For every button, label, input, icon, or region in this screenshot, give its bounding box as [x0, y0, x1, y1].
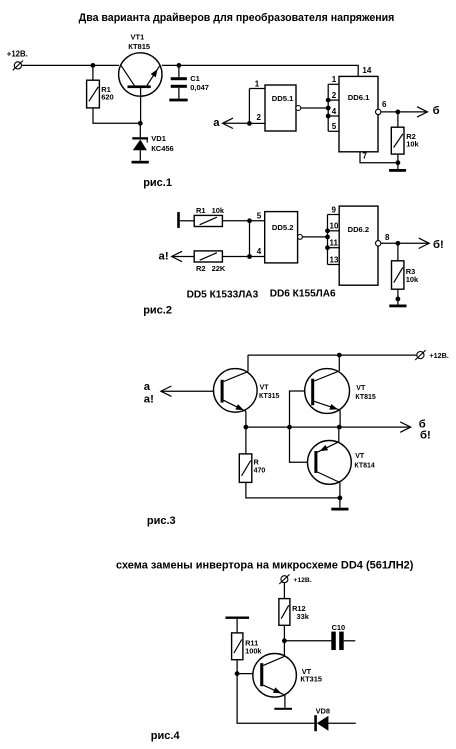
pin label 13	[330, 255, 339, 264]
label VT KT315 (fig.3 left)	[259, 384, 280, 400]
node R2 top	[396, 110, 401, 115]
node collector/C10	[282, 638, 287, 643]
resistor R2 (fig.2)	[194, 251, 222, 262]
node R2 bottom	[396, 160, 401, 165]
svg-text:33k: 33k	[297, 612, 310, 621]
svg-text:DD5.1: DD5.1	[272, 94, 294, 103]
svg-text:б: б	[433, 105, 440, 117]
svg-text:а!: а!	[144, 394, 154, 406]
svg-text:470: 470	[254, 467, 266, 474]
svg-text:а!: а!	[159, 251, 169, 263]
terminal bar (fig.2 R1)	[177, 212, 180, 228]
pin label 2 (DD5.1)	[257, 113, 262, 122]
label a (fig.1)	[213, 117, 220, 129]
transistor VT KT315 (fig.3 left)	[214, 355, 258, 427]
svg-text:1: 1	[332, 75, 337, 84]
svg-text:5: 5	[332, 122, 337, 131]
input arrow a! (fig.2)	[172, 251, 195, 261]
ground under R2	[389, 169, 406, 172]
svg-text:VD8: VD8	[316, 706, 330, 715]
svg-text:а: а	[213, 117, 220, 129]
svg-text:10k: 10k	[406, 140, 419, 149]
svg-text:2: 2	[257, 113, 262, 122]
svg-text:КТ815: КТ815	[128, 42, 150, 51]
DD6.1 input bracket	[328, 84, 339, 131]
svg-text:7: 7	[363, 151, 368, 160]
label R3 10k	[406, 267, 419, 284]
diode VD8	[314, 715, 356, 731]
resistor R12	[279, 599, 290, 626]
transistor VT KT315 (fig.4)	[253, 654, 297, 708]
power terminal +12V (fig.1)	[7, 50, 28, 71]
node base/VD1	[138, 121, 143, 126]
pin label 9	[332, 205, 337, 214]
transistor VT KT815 (fig.3)	[305, 355, 350, 427]
caption fig.4	[151, 730, 181, 742]
label C10	[332, 623, 346, 632]
pin label 7	[363, 151, 368, 160]
svg-text:10k: 10k	[406, 275, 419, 284]
pin label 5 (DD5.2)	[257, 211, 262, 220]
wire R2 to pin4	[222, 256, 264, 258]
caption DD5 K1533LA3	[187, 289, 259, 300]
svg-text:КТ315: КТ315	[300, 674, 322, 683]
node base (fig.4)	[235, 671, 240, 676]
svg-text:рис.3: рис.3	[147, 515, 176, 527]
svg-text:КТ815: КТ815	[355, 394, 376, 401]
wire R1 to base node	[93, 108, 139, 123]
ground under R3 (fig.2)	[389, 305, 406, 308]
wire R3 to ground	[397, 289, 399, 304]
output arrow b/b! (fig.3)	[400, 422, 411, 432]
zener diode VD1	[132, 137, 148, 161]
transistor VT1	[119, 53, 162, 124]
svg-text:рис.4: рис.4	[151, 730, 181, 742]
resistor R1 (fig.2)	[194, 215, 222, 226]
power rail +12V (fig.3)	[248, 354, 417, 356]
label VT KT814 (fig.3)	[354, 453, 375, 470]
transistor VT KT814 (fig.3)	[308, 427, 352, 498]
resistor R3	[392, 261, 404, 289]
svg-text:DD5.2: DD5.2	[272, 223, 294, 232]
svg-text:+12В.: +12В.	[293, 577, 311, 584]
node emitter KT315	[244, 425, 249, 430]
label R11 100k	[245, 639, 262, 656]
svg-text:DD6.2: DD6.2	[348, 225, 370, 234]
ground (fig.4)	[274, 708, 292, 710]
caption DD6 K155LA6	[270, 288, 336, 299]
svg-text:VT: VT	[356, 385, 366, 392]
gate DD5.1 box	[265, 85, 296, 131]
resistor R 470	[239, 454, 252, 483]
node DD6.2 in	[325, 235, 330, 240]
wire bases down to KT814 base	[290, 427, 315, 462]
svg-text:1: 1	[255, 79, 260, 88]
svg-text:б!: б!	[420, 430, 431, 442]
label DD5.2	[272, 223, 294, 232]
node emitters	[337, 425, 342, 430]
label b (fig.1)	[433, 105, 440, 117]
output node line (fig.3)	[246, 426, 411, 428]
node rail/KT815 collector	[337, 353, 342, 358]
wire to ground (fig.1 right)	[397, 163, 399, 169]
label R 470	[254, 459, 266, 474]
svg-text:схема замены инвертора на микр: схема замены инвертора на микросхеме DD4…	[116, 560, 414, 572]
pin label 5 (DD6.1)	[332, 122, 337, 131]
node ground (fig.3)	[338, 496, 343, 501]
svg-text:КТ814: КТ814	[354, 462, 375, 469]
caption fig.3	[147, 515, 176, 527]
pin label 1 (DD5.1)	[255, 79, 260, 88]
DD6.1 output bubble	[376, 109, 381, 114]
node emitter/C1	[177, 63, 182, 68]
pin label 11	[330, 239, 339, 248]
label VT KT315 (fig.4)	[300, 667, 322, 684]
wire R12 to collector node	[283, 625, 285, 656]
svg-text:9: 9	[332, 205, 337, 214]
node pin4	[247, 254, 252, 259]
power terminal +12V (fig.3)	[415, 350, 449, 360]
DD5.1 input bracket	[249, 89, 265, 124]
wire R470 to ground line	[246, 482, 340, 498]
node R3 bottom	[396, 297, 401, 302]
svg-text:+12В.: +12В.	[429, 351, 448, 360]
output arrow b (fig.1)	[417, 107, 428, 117]
svg-text:22K: 22K	[212, 264, 226, 273]
svg-text:рис.1: рис.1	[143, 177, 172, 189]
label a (fig.3)	[144, 381, 151, 393]
svg-text:5: 5	[257, 211, 262, 220]
node R3 top	[396, 241, 401, 246]
wire base node to VT	[237, 673, 260, 675]
pin label 10	[330, 222, 339, 231]
capacitor C10	[331, 632, 355, 650]
svg-text:14: 14	[362, 66, 371, 75]
svg-text:VT: VT	[355, 453, 365, 460]
wire DD5.2 out to DD6.2	[302, 236, 327, 238]
svg-text:0,047: 0,047	[190, 83, 209, 92]
label R12 33k	[292, 604, 310, 621]
label b! (fig.2)	[433, 239, 444, 251]
wire bases up to KT815 base	[290, 391, 312, 427]
label R1 620	[101, 85, 114, 101]
ground (fig.3)	[331, 508, 348, 511]
wire bar to R1	[180, 220, 194, 222]
wire to R1	[92, 65, 94, 80]
svg-text:Два варианта драйверов для пре: Два варианта драйверов для преобразовате…	[79, 12, 395, 24]
terminal bar (fig.4 R11)	[225, 617, 249, 619]
pin label 4 (DD6.1)	[332, 107, 337, 116]
output arrow b! (fig.2)	[419, 238, 430, 248]
gate DD6.2 box	[339, 206, 378, 285]
wire to ground symbol (fig.3)	[339, 498, 341, 508]
svg-text:2: 2	[332, 91, 337, 100]
svg-text:+12В.: +12В.	[7, 50, 28, 59]
wire node to R470	[245, 427, 247, 454]
wire node to R3	[397, 243, 399, 260]
pin label 14	[362, 66, 371, 75]
node R1 top	[91, 63, 96, 68]
wire node to C10	[284, 640, 331, 642]
svg-text:R2: R2	[196, 264, 206, 273]
input arrow a (fig.1)	[223, 118, 250, 128]
svg-text:8: 8	[385, 233, 390, 242]
ground under VD1	[132, 161, 149, 164]
label DD5.1	[272, 94, 294, 103]
node DD6.1 pin2	[326, 98, 331, 103]
label VT1 KT815	[128, 33, 150, 51]
caption fig.1	[143, 177, 172, 189]
capacitor C1	[171, 65, 187, 98]
label VT KT815 (fig.3)	[355, 385, 376, 401]
DD6.2 input bracket	[328, 215, 340, 265]
node bases	[287, 425, 292, 430]
pin label 6	[382, 100, 387, 109]
node DD6.1 in	[326, 106, 331, 111]
pin label 2 (DD6.1)	[332, 91, 337, 100]
node DD6.2 pin11	[325, 245, 330, 250]
svg-text:C10: C10	[332, 623, 346, 632]
node pin5	[247, 218, 252, 223]
wire DD5.1 out to DD6.1	[301, 107, 328, 109]
ground under C1	[169, 99, 187, 102]
bracket fig2 inputs	[249, 221, 251, 257]
node DD6.2 pin10	[325, 228, 330, 233]
pin label 1 (DD6.1)	[332, 75, 337, 84]
wire bar to R11	[236, 619, 238, 633]
label R2 22K (fig.2)	[196, 264, 226, 273]
svg-text:б!: б!	[433, 239, 444, 251]
svg-text:10: 10	[330, 222, 339, 231]
gate DD6.1 box	[339, 76, 378, 151]
svg-text:VD1: VD1	[151, 134, 166, 143]
svg-text:100k: 100k	[245, 646, 262, 655]
wire R11 to base node	[236, 660, 238, 674]
label R2 10k	[406, 132, 419, 148]
svg-text:а: а	[144, 381, 151, 393]
gate DD5.2 box	[265, 212, 298, 263]
wire base node to VD1	[139, 123, 141, 137]
resistor R11	[232, 633, 243, 660]
svg-text:VT: VT	[260, 384, 270, 391]
label b (fig.3)	[419, 419, 426, 431]
wire DD6.1 out	[381, 111, 428, 113]
svg-text:620: 620	[101, 92, 114, 101]
label R1 10k (fig.2)	[196, 206, 225, 215]
wire +12V to VT1 collector	[22, 64, 119, 66]
title text	[79, 12, 395, 24]
DD5.2 output bubble	[298, 235, 303, 240]
wire emitter node to DD6.1 pin14	[162, 65, 358, 76]
svg-text:DD6.1: DD6.1	[348, 93, 370, 102]
pin label 8	[385, 233, 390, 242]
svg-text:11: 11	[330, 239, 339, 248]
label VD8	[316, 706, 330, 715]
label VD1 KC456	[151, 134, 173, 153]
label DD6.1	[348, 93, 370, 102]
label a! (fig.3)	[144, 394, 154, 406]
node DD6.1 pin4	[326, 114, 331, 119]
label C1 0,047	[190, 74, 209, 92]
wire R1 to pin5	[222, 220, 264, 222]
svg-text:DD5 К1533ЛА3: DD5 К1533ЛА3	[187, 289, 259, 300]
label b! (fig.3)	[420, 430, 431, 442]
pin label 4 (DD5.2)	[257, 247, 262, 256]
caption fig.2	[143, 305, 172, 317]
svg-text:C1: C1	[190, 74, 200, 83]
header fig.4	[116, 560, 414, 572]
power terminal +12V (fig.4)	[279, 574, 312, 584]
svg-text:10k: 10k	[212, 206, 225, 215]
wire base node down to VD8	[237, 674, 314, 724]
input arrow a/a! (fig.3)	[161, 386, 221, 396]
svg-text:DD6 К155ЛА6: DD6 К155ЛА6	[270, 288, 336, 299]
wire DD6.2 out	[381, 242, 429, 244]
node DD5.1 pin2	[247, 121, 252, 126]
svg-text:6: 6	[382, 100, 387, 109]
svg-text:13: 13	[330, 255, 339, 264]
wire node to R2	[397, 112, 399, 127]
resistor R2	[391, 127, 404, 154]
label DD6.2	[348, 225, 370, 234]
wire pin7 to R2 bottom	[360, 152, 398, 163]
DD6.2 output bubble	[376, 241, 381, 246]
DD5.1 output bubble	[296, 106, 301, 111]
wire terminal to R12	[283, 583, 285, 599]
svg-text:R1: R1	[196, 206, 206, 215]
resistor R1	[87, 80, 100, 108]
svg-text:4: 4	[332, 107, 337, 116]
svg-text:4: 4	[257, 247, 262, 256]
svg-text:R: R	[254, 459, 259, 466]
label a! (fig.2)	[159, 251, 169, 263]
svg-text:рис.2: рис.2	[143, 305, 172, 317]
svg-text:VT1: VT1	[131, 33, 145, 42]
svg-text:КТ315: КТ315	[259, 393, 280, 400]
svg-text:КС456: КС456	[151, 144, 173, 153]
